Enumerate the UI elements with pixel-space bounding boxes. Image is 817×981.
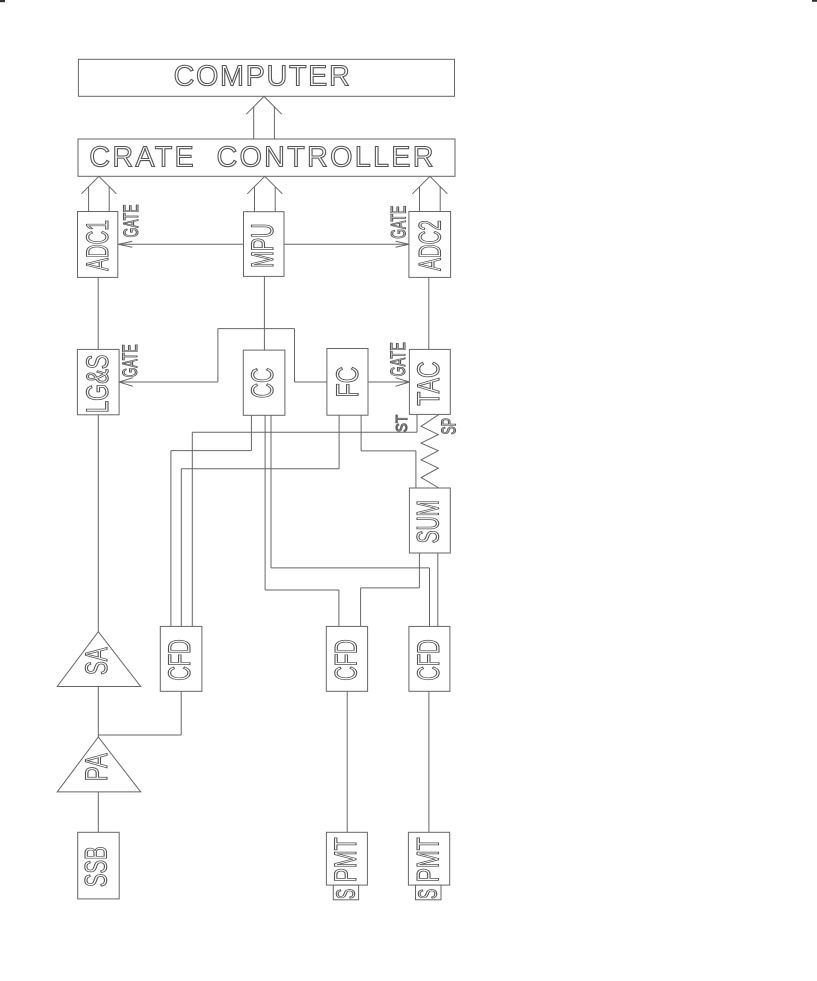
arrow ADC1 to CRATE CONTROLLER: [81, 176, 116, 211]
wire CC pinC down: [270, 415, 272, 568]
zigzag delay TAC SP to SUM: [421, 414, 439, 488]
wire CC pinB down: [264, 415, 266, 590]
wire gate staple right drop: [294, 329, 296, 382]
arrow CRATE CONTROLLER to COMPUTER: [246, 96, 281, 139]
wire SUM top pin: [415, 451, 417, 488]
svg-text:ADC1: ADC1: [79, 220, 115, 271]
arrow ADC2 to CRATE CONTROLLER: [412, 176, 447, 211]
box S2 (source, middle): [333, 885, 358, 900]
wire CFD1 pin1 vertical: [170, 451, 172, 627]
svg-text:GATE: GATE: [387, 342, 410, 376]
svg-text:ST: ST: [394, 415, 411, 433]
wire FC right pin down: [360, 415, 362, 451]
svg-text:ADC2: ADC2: [412, 220, 448, 271]
box CFD2 (middle): [326, 626, 367, 691]
svg-text:CRATE CONTROLLER: CRATE CONTROLLER: [89, 142, 433, 174]
wire ADC1 to LG&S: [97, 277, 99, 349]
arrowhead gate at LG&S: [119, 378, 133, 387]
amplifier PA (triangle): [57, 737, 141, 792]
svg-text:MPU: MPU: [244, 223, 280, 267]
wire CFD1 pin2 vertical: [180, 469, 182, 627]
wire CFD1 pin3 vertical: [191, 432, 193, 626]
arrow MPU to CRATE CONTROLLER: [247, 176, 282, 211]
wire CFD2 pin1 vertical: [338, 590, 340, 626]
svg-text:CC: CC: [244, 368, 280, 399]
wire staple to FC: [295, 381, 327, 383]
wire CFD1 to FC horizontal: [181, 468, 339, 470]
svg-text:FC: FC: [329, 367, 365, 398]
svg-text:SUM: SUM: [410, 500, 446, 543]
wire PA base to SSB: [97, 792, 99, 832]
amplifier SA (triangle): [57, 632, 141, 687]
box S3 (source, right): [416, 885, 442, 900]
wire CC pinA to CFD1 horizontal: [171, 450, 252, 452]
box CC: [243, 350, 285, 415]
wire SA base to PA apex: [97, 687, 99, 738]
svg-text:GATE: GATE: [388, 206, 411, 239]
wire CFD2 pin2 vertical: [360, 588, 362, 627]
svg-text:PMT: PMT: [327, 837, 363, 882]
wire CFD3 pin1 vertical: [429, 568, 431, 627]
box PMT2 (middle): [326, 832, 367, 885]
wire CFD1 to TAC-ST horizontal: [192, 431, 417, 433]
svg-text:COMPUTER: COMPUTER: [174, 61, 350, 93]
arrowhead gate at ADC2: [396, 241, 409, 247]
wire MPU gate to ADC2: [284, 243, 409, 245]
wire MPU down to CC: [263, 276, 265, 350]
box CRATE CONTROLLER: [78, 139, 455, 176]
wire TAC ST pin: [416, 414, 418, 432]
svg-text:GATE: GATE: [120, 204, 143, 237]
wire CC pinA down: [250, 415, 252, 450]
box CFD3 (right): [409, 626, 450, 691]
arrowhead gate at ADC1: [118, 241, 132, 247]
wire SUM bottom-left pin down: [418, 553, 420, 588]
box SSB: [78, 832, 120, 899]
wire SUM bottom-right to CFD3: [437, 553, 439, 626]
wire SUM to CFD2 horizontal: [361, 587, 420, 589]
svg-text:S: S: [333, 889, 361, 899]
box COMPUTER: [78, 59, 454, 96]
wire FC left pin down: [338, 415, 340, 469]
svg-text:TAC: TAC: [410, 361, 446, 405]
box SUM: [409, 488, 450, 553]
wire FC to SUM horizontal: [361, 450, 416, 452]
wire gate to LG&S: [119, 381, 218, 383]
svg-text:SP: SP: [439, 418, 461, 435]
wire CFD2 down to PMT2: [346, 691, 348, 832]
svg-text:PMT: PMT: [409, 837, 445, 882]
scan mark top-left corner: [0, 0, 5, 2]
box TAC: [409, 349, 450, 414]
wire gate staple left drop: [217, 329, 219, 382]
box PMT3 (right): [408, 832, 449, 885]
wire ADC2 down to TAC: [428, 277, 430, 349]
svg-text:LG&S: LG&S: [79, 355, 115, 413]
svg-text:CFD: CFD: [410, 639, 446, 681]
svg-text:S: S: [415, 889, 443, 899]
box FC: [327, 349, 368, 416]
svg-text:SA: SA: [78, 647, 114, 675]
svg-text:CFD: CFD: [328, 639, 364, 681]
box ADC2: [409, 212, 451, 278]
box MPU: [244, 212, 285, 277]
svg-text:SSB: SSB: [78, 846, 114, 887]
wire CFD1 output to PA node: [98, 734, 181, 736]
wire CC pinB to CFD2 horizontal: [265, 589, 339, 591]
wire CFD1 output down: [180, 691, 182, 735]
box LG&S: [77, 349, 119, 414]
svg-text:PA: PA: [78, 753, 114, 781]
wire CFD3 down to PMT3: [428, 691, 430, 832]
box CFD1 (left): [160, 626, 202, 691]
wire MPU gate to ADC1: [118, 243, 243, 245]
svg-text:GATE: GATE: [119, 344, 142, 377]
wire LG&S down to SA apex: [97, 415, 99, 632]
wire CC pinC to CFD3 horizontal: [271, 567, 430, 569]
svg-text:CFD: CFD: [161, 639, 197, 681]
arrowhead gate at TAC: [396, 378, 410, 387]
box ADC1: [78, 212, 118, 278]
wire FC to TAC gate: [368, 381, 409, 383]
scan mark top-right corner: [812, 0, 817, 2]
wire gate staple horizontal: [218, 328, 295, 330]
